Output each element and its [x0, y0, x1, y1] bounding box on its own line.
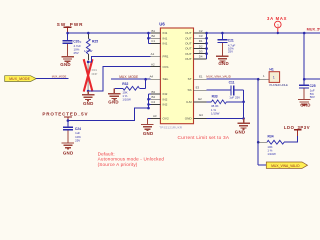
svg-text:IN1: IN1	[163, 31, 168, 35]
U6 left pin names	[163, 31, 169, 120]
svg-text:MUX_VINA_VALID: MUX_VINA_VALID	[206, 75, 231, 79]
svg-text:OUT: OUT	[185, 42, 192, 46]
svg-text:C3: C3	[199, 34, 203, 38]
node C21 junction	[221, 32, 224, 35]
ground below C25	[298, 100, 310, 106]
wire right edge net at ST row	[304, 78, 320, 80]
svg-text:GND: GND	[235, 130, 246, 135]
ground below GND pin net	[237, 119, 249, 130]
ground below C24	[62, 143, 74, 149]
svg-text:PR1: PR1	[163, 54, 169, 58]
svg-text:A3: A3	[153, 114, 157, 118]
svg-text:IN1: IN1	[163, 36, 168, 40]
capacitor C20	[63, 33, 82, 56]
ground below C21	[216, 56, 228, 62]
wire PROTECTED_5V to IN2 pins	[68, 108, 149, 121]
resistor R33	[207, 94, 244, 115]
svg-text:SW_PWR: SW_PWR	[57, 22, 84, 27]
red X no-populate marker over R31	[84, 59, 93, 91]
wire MUX_5V0 down to C25	[303, 33, 305, 85]
wire OUT pin tie vertical	[206, 33, 208, 59]
wire ST net to H1	[207, 78, 259, 80]
svg-text:IN2: IN2	[163, 97, 168, 101]
node PROTECTED_5V junction	[67, 119, 70, 122]
wire SEL net	[111, 78, 151, 80]
svg-text:R33: R33	[212, 94, 218, 98]
svg-text:B2: B2	[151, 34, 155, 38]
capacitor C25	[299, 84, 316, 99]
capacitor C21	[217, 33, 235, 56]
svg-text:R25: R25	[92, 40, 98, 44]
node OUT junction dots	[205, 32, 208, 55]
svg-text:OUT: OUT	[185, 47, 192, 51]
power flag PROTECTED_5V	[42, 112, 88, 121]
svg-text:OV2: OV2	[163, 117, 169, 121]
node SEL junction	[144, 78, 147, 81]
svg-text:E2: E2	[198, 97, 202, 101]
power flag SW_PWR	[57, 22, 84, 33]
svg-text:Current Limit set to 3A: Current Limit set to 3A	[178, 135, 230, 140]
svg-text:25V: 25V	[228, 50, 233, 54]
svg-text:R31: R31	[92, 68, 98, 72]
current probe 3A MAX	[267, 16, 287, 33]
svg-text:3A MAX: 3A MAX	[267, 16, 287, 21]
svg-text:25V: 25V	[74, 51, 79, 55]
wire MUX_VINA_VALID vertical	[258, 79, 266, 165]
wire IN2 pin tie vertical	[149, 94, 152, 108]
svg-text:C21: C21	[228, 39, 234, 43]
svg-text:OUT: OUT	[185, 57, 192, 61]
svg-text:D4: D4	[199, 55, 203, 59]
svg-text:MUX_VINA_VALID: MUX_VINA_VALID	[271, 164, 300, 168]
svg-text:25V: 25V	[75, 139, 80, 143]
capacitor C24	[63, 121, 81, 143]
svg-text:GND: GND	[60, 62, 71, 67]
svg-text:C25: C25	[310, 84, 316, 88]
svg-text:E4: E4	[199, 113, 203, 117]
node probe junction	[277, 32, 279, 34]
annotation default mode	[98, 152, 165, 167]
svg-text:MUX_MODE: MUX_MODE	[52, 76, 67, 79]
svg-text:B1: B1	[151, 29, 155, 33]
svg-text:GND: GND	[108, 100, 119, 105]
svg-text:R34: R34	[268, 135, 274, 139]
svg-text:C2: C2	[199, 29, 203, 33]
node R31 bottom junction	[87, 90, 90, 93]
svg-text:ST: ST	[188, 77, 192, 81]
resistor R31 DNP body	[88, 60, 97, 91]
ground below OV2 pin	[141, 118, 153, 130]
svg-text:1uF 25V: 1uF 25V	[229, 95, 240, 99]
wire R31 top to PR1 pin A1	[88, 56, 150, 62]
port MUX_MODE	[5, 76, 37, 82]
svg-text:MUX_MODE: MUX_MODE	[9, 77, 30, 81]
node ST junction	[257, 78, 260, 81]
resistor R25	[80, 33, 99, 60]
svg-text:1/10W: 1/10W	[211, 111, 220, 115]
node R33 junction	[242, 101, 245, 104]
svg-text:PROTECTED_5V: PROTECTED_5V	[42, 112, 88, 117]
svg-text:OUT: OUT	[185, 31, 192, 35]
svg-text:A1: A1	[151, 52, 155, 56]
resistor R32	[114, 79, 145, 101]
svg-text:GND: GND	[218, 61, 229, 66]
node R31 top junction	[87, 61, 90, 64]
resistor R34	[258, 135, 298, 156]
U6 left pin stubs	[151, 33, 161, 118]
svg-text:IN2: IN2	[163, 103, 168, 107]
IC U6 TPS2121 power mux	[159, 22, 193, 130]
wire SW_PWR rail to IN1 pins	[68, 32, 151, 34]
svg-text:OUT: OUT	[185, 52, 192, 56]
svg-text:A4: A4	[149, 75, 153, 79]
U6 left pin numbers	[149, 29, 156, 118]
svg-text:MUX_5V0: MUX_5V0	[307, 28, 320, 32]
svg-text:1/10W: 1/10W	[84, 49, 93, 53]
svg-text:IN2: IN2	[163, 92, 168, 96]
wire OUT rail	[207, 32, 320, 34]
node C20 junction	[66, 32, 69, 35]
svg-text:GND: GND	[185, 117, 193, 121]
wire OV2 pin A3 to ground	[147, 117, 150, 119]
power flag LDO_3P3V	[284, 125, 310, 136]
node right edge junction	[303, 78, 306, 81]
U6 right pin stubs	[194, 33, 207, 119]
svg-text:C1: C1	[151, 39, 155, 43]
svg-text:MUX_MODE: MUX_MODE	[119, 75, 139, 79]
U6 right pin names	[185, 31, 193, 120]
svg-text:U6: U6	[159, 22, 165, 27]
svg-text:B3: B3	[151, 90, 155, 94]
ground below C20	[61, 57, 73, 63]
svg-text:A2: A2	[151, 62, 155, 66]
wire GND pin E4	[207, 118, 244, 120]
svg-text:E1: E1	[199, 74, 203, 78]
svg-text:OV1: OV1	[163, 65, 169, 69]
wire from port MUX_MODE	[36, 78, 68, 80]
svg-text:ILM: ILM	[186, 100, 192, 104]
svg-text:GND: GND	[143, 131, 154, 136]
svg-text:B4: B4	[151, 95, 155, 99]
svg-text:TPS2121RUXR: TPS2121RUXR	[159, 125, 182, 129]
svg-text:GND: GND	[300, 103, 311, 108]
svg-text:R32: R32	[122, 82, 128, 86]
wire C11 R33 GND tie vertical	[243, 90, 245, 118]
node R34 junction	[257, 141, 260, 144]
svg-text:GND: GND	[63, 151, 74, 156]
ground below R32	[108, 88, 120, 99]
svg-text:(Source A priority): (Source A priority)	[98, 162, 138, 167]
svg-text:E3: E3	[196, 86, 200, 90]
plated hole H1	[258, 68, 288, 87]
svg-text:LDO_3P3V: LDO_3P3V	[284, 125, 310, 130]
node IN2 junction dots	[147, 98, 150, 110]
port MUX_VINA_VALID	[266, 162, 307, 168]
svg-text:1/10W: 1/10W	[267, 152, 276, 156]
node IN1 junction dots	[147, 32, 150, 40]
ground below R31	[82, 91, 94, 101]
wire R31 bypass loop to OV1 pin A2	[88, 67, 150, 91]
wire IN1 pin tie vertical	[148, 33, 151, 43]
capacitor C11	[207, 80, 244, 99]
svg-text:PLATED HOLE: PLATED HOLE	[270, 83, 289, 87]
svg-text:OUT: OUT	[185, 36, 192, 40]
svg-text:50V: 50V	[310, 95, 315, 99]
svg-text:DNP: DNP	[92, 72, 98, 76]
svg-text:1/10W: 1/10W	[122, 98, 131, 102]
svg-text:SS: SS	[187, 88, 191, 92]
svg-text:1: 1	[273, 76, 275, 80]
svg-text:Autonomous mode - Unlocked: Autonomous mode - Unlocked	[98, 157, 165, 162]
svg-text:IN1: IN1	[163, 42, 168, 46]
svg-text:SEL: SEL	[163, 77, 169, 81]
svg-text:GND: GND	[83, 101, 94, 106]
svg-text:H1: H1	[269, 68, 273, 72]
svg-text:C4: C4	[151, 100, 155, 104]
svg-text:D3: D3	[199, 49, 203, 53]
node R25 top junction	[87, 32, 90, 35]
node GND net junction	[242, 117, 245, 120]
svg-text:D1: D1	[199, 39, 203, 43]
U6 right pin numbers	[196, 29, 204, 117]
svg-text:C11: C11	[229, 80, 235, 84]
svg-text:D2: D2	[199, 44, 203, 48]
node MUX_5V0 junction	[303, 32, 306, 35]
